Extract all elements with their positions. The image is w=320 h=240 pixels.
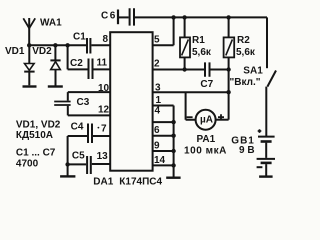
svg-text:C2: C2	[70, 58, 83, 69]
svg-text:5: 5	[154, 35, 160, 46]
svg-text:VD1: VD1	[5, 46, 25, 57]
svg-text:13: 13	[97, 151, 109, 162]
svg-text:12: 12	[98, 104, 110, 115]
svg-text:DA1: DA1	[93, 176, 113, 187]
svg-text:1: 1	[156, 95, 162, 106]
svg-text:"Вкл.": "Вкл."	[230, 77, 261, 88]
svg-text:PA1: PA1	[197, 134, 216, 145]
svg-text:2: 2	[154, 59, 160, 70]
svg-text:C6: C6	[101, 10, 117, 21]
svg-text:10: 10	[98, 83, 110, 94]
svg-text:5,6к: 5,6к	[236, 47, 256, 58]
svg-text:3: 3	[155, 82, 161, 93]
svg-text:7: 7	[101, 124, 107, 135]
svg-text:К174ПС4: К174ПС4	[119, 176, 162, 187]
svg-text:R2: R2	[237, 35, 250, 46]
svg-text:WA1: WA1	[40, 17, 62, 28]
svg-text:C3: C3	[77, 97, 90, 108]
svg-text:4: 4	[155, 106, 161, 117]
svg-text:11: 11	[97, 58, 108, 69]
svg-text:VD2: VD2	[32, 46, 52, 57]
svg-text:µA: µA	[200, 114, 213, 125]
svg-text:100 мкА: 100 мкА	[184, 145, 227, 156]
svg-text:4700: 4700	[16, 158, 39, 169]
svg-text:6: 6	[154, 125, 160, 136]
svg-text:14: 14	[154, 155, 166, 166]
svg-text:C1 ... C7: C1 ... C7	[16, 147, 56, 158]
svg-text:9 В: 9 В	[239, 145, 255, 156]
svg-text:9: 9	[154, 141, 160, 152]
svg-text:C4: C4	[71, 121, 84, 132]
svg-text:C1: C1	[73, 32, 86, 43]
svg-text:R1: R1	[192, 35, 205, 46]
svg-text:C5: C5	[72, 151, 85, 162]
svg-text:КД510А: КД510А	[16, 130, 53, 141]
svg-text:SA1: SA1	[243, 66, 263, 77]
svg-text:8: 8	[103, 34, 109, 45]
svg-text:5,6к: 5,6к	[192, 47, 212, 58]
svg-text:VD1, VD2: VD1, VD2	[16, 119, 61, 130]
svg-text:C7: C7	[200, 79, 213, 90]
